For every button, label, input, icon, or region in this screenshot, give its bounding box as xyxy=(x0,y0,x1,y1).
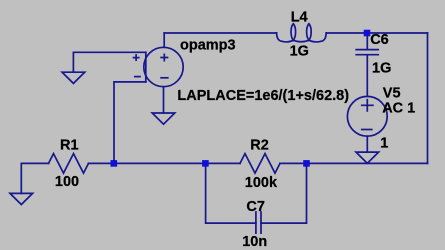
wire V5 to ground xyxy=(366,136,368,152)
svg-text:1: 1 xyxy=(380,136,388,152)
svg-text:L4: L4 xyxy=(291,10,308,26)
capacitor C6 xyxy=(356,50,378,55)
inductor L4 body xyxy=(277,33,327,42)
op-amp minus input label xyxy=(135,76,140,78)
wire opamp +input to ground xyxy=(73,52,145,72)
op-amp minus (inside) xyxy=(161,77,168,79)
svg-text:LAPLACE=1e6/(1+s/62.8): LAPLACE=1e6/(1+s/62.8) xyxy=(177,88,349,104)
svg-text:1G: 1G xyxy=(290,44,309,60)
junction at L4/C6 top node xyxy=(364,30,371,37)
wire bottom rail R1 to R2 xyxy=(89,162,241,164)
svg-text:R1: R1 xyxy=(60,138,79,154)
voltage source V5 circle xyxy=(347,96,387,136)
op-amp plus input label xyxy=(134,55,139,60)
ground GND3 (below V5) xyxy=(356,152,379,163)
svg-text:100: 100 xyxy=(55,174,79,190)
svg-text:AC 1: AC 1 xyxy=(382,100,415,116)
wire opamp -input down to bottom rail xyxy=(114,82,146,163)
wire right vertical xyxy=(427,33,429,163)
wire bottom rail R2 to right xyxy=(280,162,428,164)
svg-text:1G: 1G xyxy=(372,61,391,77)
svg-text:10n: 10n xyxy=(242,234,267,250)
ground GND2 (below opamp) xyxy=(152,113,175,124)
wire C6 to V5 xyxy=(366,56,368,97)
junction at R2/C7 right node xyxy=(303,160,310,167)
junction at opamp -input node xyxy=(111,160,118,167)
resistor R1 body xyxy=(49,154,89,174)
svg-text:100k: 100k xyxy=(245,175,278,191)
svg-text:V5: V5 xyxy=(383,85,401,101)
junction at R2/C7 left node xyxy=(202,160,209,167)
wire bottom rail left of R1 xyxy=(21,163,48,193)
op-amp plus (inside) xyxy=(161,54,167,60)
wire opamp bottom pin to ground xyxy=(163,87,165,113)
V5 plus xyxy=(362,100,373,111)
wire opamp output up to top rail xyxy=(163,33,165,47)
op-amp U1 circle xyxy=(144,47,183,86)
ground GND4 (bottom-left) xyxy=(10,193,33,204)
V5 minus xyxy=(362,129,372,131)
wire top node to C6 xyxy=(366,33,368,49)
svg-text:C7: C7 xyxy=(246,199,265,215)
svg-text:opamp3: opamp3 xyxy=(180,37,236,53)
capacitor C7 xyxy=(256,212,261,233)
wire C7 right branch xyxy=(261,163,307,223)
wire top rail right segment xyxy=(326,32,427,34)
op-amp U1 body left edge xyxy=(145,52,147,82)
wire C7 left branch xyxy=(206,163,256,223)
wire top rail left segment xyxy=(164,32,276,34)
ground GND1 (top-left) xyxy=(62,72,85,83)
svg-text:C6: C6 xyxy=(370,32,389,48)
resistor R2 body xyxy=(240,154,280,174)
svg-text:R2: R2 xyxy=(250,137,269,153)
